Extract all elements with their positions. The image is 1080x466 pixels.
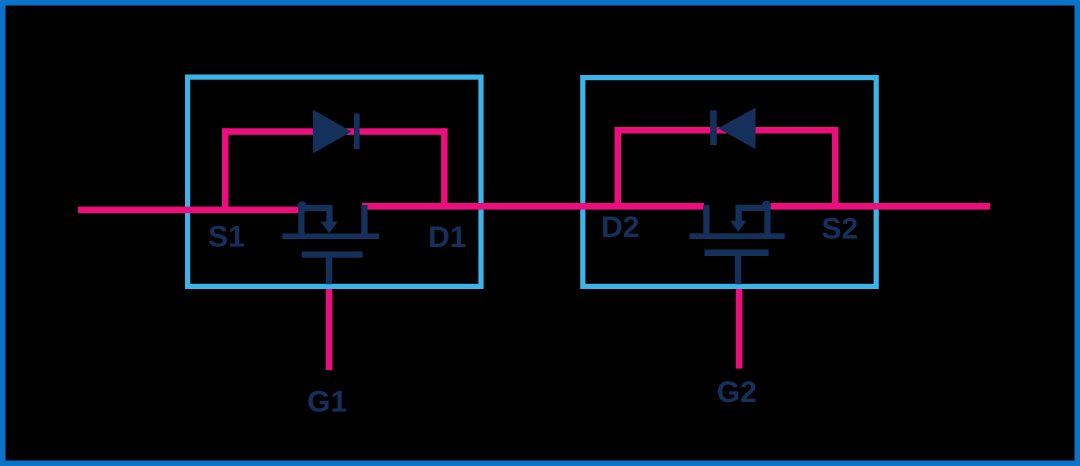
svg-text:D1: D1 [428,221,466,254]
svg-text:G2: G2 [717,376,757,409]
svg-text:S1: S1 [208,221,245,254]
svg-text:G1: G1 [307,386,347,419]
svg-text:D2: D2 [601,211,639,244]
svg-text:S2: S2 [822,212,859,245]
